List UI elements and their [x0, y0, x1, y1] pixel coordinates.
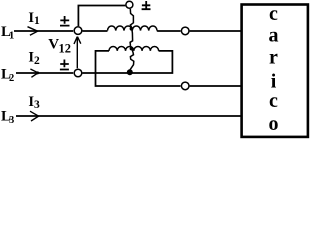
label L2: [1, 66, 14, 84]
load box carico: [242, 5, 308, 137]
label carico letter i: [271, 70, 277, 92]
svg-text:I3: I3: [28, 94, 40, 111]
svg-text:r: r: [269, 46, 278, 68]
wire left end of exciting winding down and to output terminal: [96, 51, 181, 86]
label I3 current: [28, 94, 40, 111]
svg-text:i: i: [271, 70, 277, 92]
svg-text:I2: I2: [28, 50, 40, 67]
terminal circle right lower: [181, 82, 189, 90]
plus-minus at L1 terminal: [60, 16, 70, 26]
label L3: [1, 109, 14, 127]
inductor exciting winding (lower): [109, 46, 159, 50]
svg-text:V12: V12: [48, 37, 71, 56]
svg-text:o: o: [269, 113, 279, 135]
arrow V12 pointing up: [74, 37, 81, 69]
label carico letter r: [269, 46, 278, 68]
label carico letter c2: [269, 90, 278, 112]
svg-text:L2: L2: [1, 66, 14, 84]
arrow I3: [30, 111, 39, 121]
label carico letter o: [269, 113, 279, 135]
label I2 current: [28, 50, 40, 67]
inductor series winding (upper): [108, 26, 158, 31]
plus-minus at L2 terminal: [60, 60, 69, 70]
arrow I1: [28, 27, 38, 36]
terminal circle L2: [74, 69, 82, 77]
node junction on L2 wire: [127, 69, 133, 75]
label carico letter c: [269, 3, 278, 25]
wire right upper terminal to load box: [190, 30, 242, 32]
label L1: [1, 24, 14, 42]
svg-text:c: c: [269, 3, 278, 25]
crossing knot lower winding: [130, 47, 134, 51]
svg-text:L3: L3: [1, 109, 14, 127]
crossing knot upper winding: [130, 27, 134, 31]
arrow I2: [30, 69, 39, 77]
svg-text:a: a: [269, 24, 279, 46]
svg-text:I1: I1: [28, 10, 40, 27]
wire L1 terminal to series winding: [83, 30, 108, 32]
label carico letter a: [269, 24, 279, 46]
terminal circle right upper: [181, 27, 189, 35]
terminal circle L1: [74, 27, 82, 35]
wire from L1 terminal up to top contact: [78, 6, 125, 27]
svg-text:c: c: [269, 90, 278, 112]
wire L1 lead-in: [14, 30, 73, 32]
label I1 current: [28, 10, 40, 27]
wire L3 to load box: [16, 115, 242, 117]
label V12: [48, 37, 71, 56]
plus-minus at top contact: [142, 1, 151, 9]
svg-text:L1: L1: [1, 24, 14, 42]
wire right lower terminal to load box: [190, 85, 242, 87]
wire L2 terminal to right end of exciting winding: [83, 51, 173, 73]
wire vertical tap from top contact down to node on L2: [130, 9, 134, 72]
terminal circle top (movable contact): [126, 1, 133, 8]
wire L2 lead-in: [16, 72, 73, 74]
wire upper winding to right terminal: [157, 30, 181, 32]
